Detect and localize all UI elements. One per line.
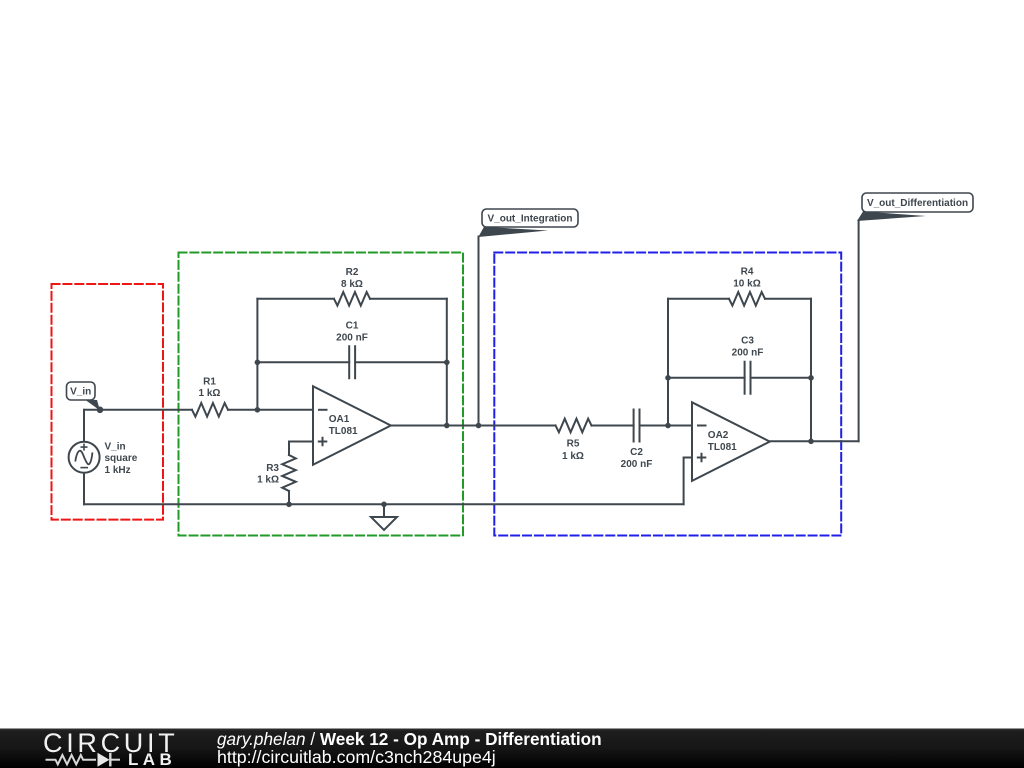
voltage source V1 V_in xyxy=(69,442,100,473)
wire: OA1 output to R5 xyxy=(391,425,556,427)
wire: OA2 output xyxy=(771,440,859,442)
ground xyxy=(371,517,397,530)
wire: input node to R1 and OA1 minus xyxy=(84,409,313,411)
svg-text:200 nF: 200 nF xyxy=(732,348,764,359)
label OA2 TL081 xyxy=(708,430,737,453)
wire: bottom rail xyxy=(84,503,684,505)
node dot R3 bottom xyxy=(286,502,292,508)
svg-text:C1: C1 xyxy=(346,321,359,332)
node dot V_in tap xyxy=(97,407,104,414)
svg-text:LAB: LAB xyxy=(128,750,176,768)
wire: R3 bottom lead xyxy=(288,491,290,504)
node dot C1 right xyxy=(444,360,450,366)
capacitor C1 xyxy=(349,346,355,378)
node dot ground rail xyxy=(381,502,387,508)
node dot R1/feedback xyxy=(255,407,261,413)
svg-text:C2: C2 xyxy=(630,447,643,458)
op-amp U1 OA1 xyxy=(313,386,391,465)
value label V_in square 1 kHz xyxy=(105,441,138,476)
node dot C2/feedback xyxy=(665,423,671,429)
svg-text:R3: R3 xyxy=(266,463,279,474)
svg-text:R5: R5 xyxy=(567,439,580,450)
resistor R3 xyxy=(282,455,296,491)
logo resistor-diode schematic xyxy=(46,753,121,766)
svg-text:200 nF: 200 nF xyxy=(621,459,653,470)
svg-text:TL081: TL081 xyxy=(708,442,737,453)
node flag V_in xyxy=(67,382,101,411)
wire: source bottom lead xyxy=(83,473,85,505)
svg-text:V_out_Differentiation: V_out_Differentiation xyxy=(867,198,968,209)
svg-text:R2: R2 xyxy=(346,267,359,278)
label R2 value xyxy=(341,267,363,290)
label R3 value xyxy=(257,463,279,486)
resistor R4 xyxy=(729,292,765,306)
svg-text:1 kΩ: 1 kΩ xyxy=(562,451,584,462)
resistor R2 xyxy=(334,292,370,306)
node dot OA1 output xyxy=(444,423,450,429)
svg-text:10 kΩ: 10 kΩ xyxy=(733,279,760,290)
svg-text:1 kHz: 1 kHz xyxy=(105,465,131,476)
ground stub xyxy=(383,504,385,517)
wire: C3 wire xyxy=(668,377,811,379)
capacitor C2 xyxy=(634,410,640,442)
capacitor C3 xyxy=(745,362,751,394)
svg-text:TL081: TL081 xyxy=(329,426,358,437)
blue dashed box (differentiator section) xyxy=(494,253,841,536)
svg-text:8 kΩ: 8 kΩ xyxy=(341,279,363,290)
node dot V_out_Integration tap xyxy=(476,423,482,429)
junction node dots xyxy=(97,360,814,508)
svg-text:V_in: V_in xyxy=(105,441,126,452)
wire: R4 top wire xyxy=(668,298,811,300)
svg-text:V_in: V_in xyxy=(70,387,91,398)
label C3 value xyxy=(732,336,764,359)
node flag V_out_Integration xyxy=(478,209,578,237)
wire: C2 to OA2 minus xyxy=(640,425,693,427)
svg-text:1 kΩ: 1 kΩ xyxy=(257,475,279,486)
footer bar xyxy=(0,729,1024,768)
svg-text:R4: R4 xyxy=(741,267,754,278)
wire: R2 top wire xyxy=(257,298,446,300)
label C1 value xyxy=(336,321,368,344)
svg-text:R1: R1 xyxy=(203,376,216,387)
wire: R5 to C2 xyxy=(592,425,634,427)
svg-text:200 nF: 200 nF xyxy=(336,332,368,343)
svg-text:square: square xyxy=(105,453,138,464)
node dot C3 left xyxy=(665,375,671,381)
wire: integrator feedback left vertical xyxy=(256,299,258,410)
node flag V_out_Differentiation xyxy=(857,193,973,221)
label R1 value xyxy=(199,376,221,399)
label OA1 TL081 xyxy=(329,414,358,437)
svg-text:C3: C3 xyxy=(741,336,754,347)
node dot OA2 output xyxy=(808,439,814,445)
label C2 value xyxy=(621,447,653,470)
svg-text:OA2: OA2 xyxy=(708,430,729,441)
wire: OA2 plus lead xyxy=(684,458,692,505)
wire: C1 wire xyxy=(257,361,446,363)
resistor R1 xyxy=(192,403,228,417)
wire: differentiator feedback right vertical xyxy=(810,299,812,442)
wire: V_out_Integration tap vertical xyxy=(478,237,480,426)
wire: OA1 plus lead xyxy=(289,442,313,456)
svg-text:OA1: OA1 xyxy=(329,414,350,425)
node dot C3 right xyxy=(808,375,814,381)
wire: V_out_Differentiation vertical xyxy=(858,221,860,442)
node dot C1 left xyxy=(255,360,261,366)
svg-text:1 kΩ: 1 kΩ xyxy=(199,388,221,399)
label R5 value xyxy=(562,439,584,462)
wire: source top lead xyxy=(83,410,85,442)
logo diode triangle xyxy=(98,753,110,767)
svg-text:V_out_Integration: V_out_Integration xyxy=(487,214,572,225)
label R4 value xyxy=(733,267,760,290)
red dashed box (source section) xyxy=(52,284,164,520)
op-amp U2 OA2 xyxy=(692,402,770,481)
green dashed box (integrator section) xyxy=(179,253,464,536)
resistor R5 xyxy=(556,419,592,433)
wire: differentiator feedback left vertical xyxy=(667,299,669,426)
wire: integrator feedback right vertical xyxy=(446,299,448,426)
svg-text:http://circuitlab.com/c3nch284: http://circuitlab.com/c3nch284upe4j xyxy=(217,747,496,767)
